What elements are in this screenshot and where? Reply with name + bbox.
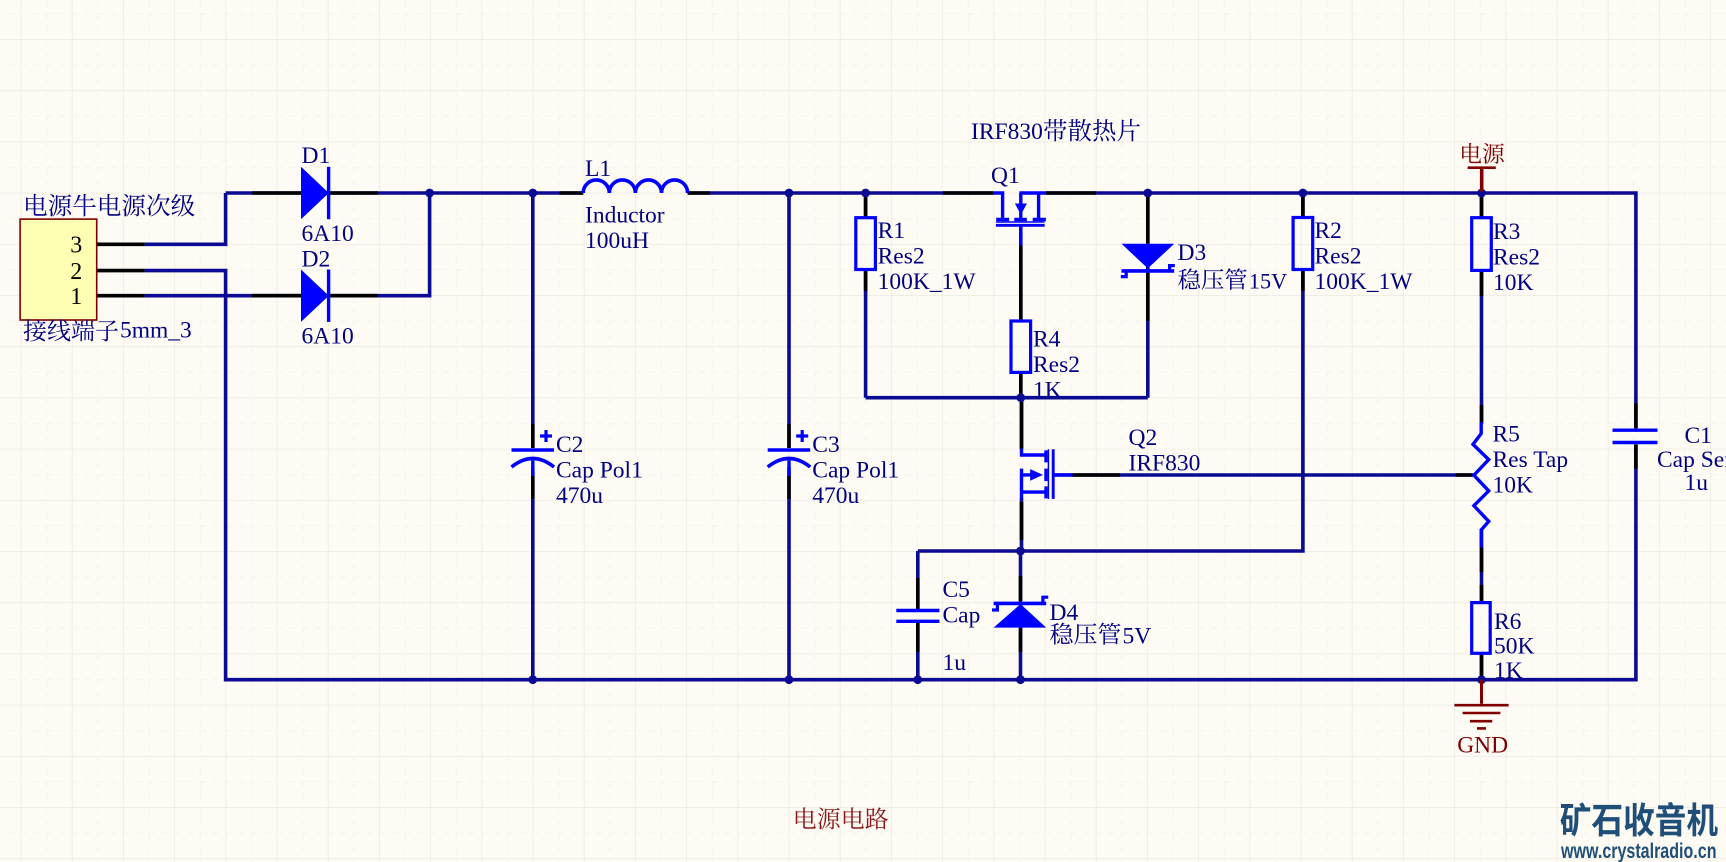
- junction C2 / top bus: [528, 189, 537, 198]
- junction gate node R4/Q2/loop: [1016, 393, 1025, 402]
- svg-text:1K: 1K: [1033, 378, 1062, 404]
- pin stubs D2: [252, 294, 378, 298]
- svg-text:www.crystalradio.cn: www.crystalradio.cn: [1560, 840, 1716, 862]
- svg-text:IRF830: IRF830: [971, 119, 1043, 145]
- wire R1 bottom to gate loop: [864, 270, 868, 398]
- power port 电源 (VCC bar): [1468, 166, 1496, 169]
- svg-text:6A10: 6A10: [302, 324, 354, 350]
- svg-text:100K_1W: 100K_1W: [878, 269, 977, 295]
- label 稳压管5V: [1050, 623, 1072, 645]
- diode D1 6A10: [301, 167, 330, 219]
- svg-text:1u: 1u: [1685, 470, 1709, 496]
- pin stub R4 bottom: [1019, 372, 1023, 397]
- junction Q2 source / C5 / R2 / D4 node: [1016, 547, 1025, 556]
- junction C5 / ground bus: [913, 675, 922, 684]
- svg-text:1u: 1u: [943, 650, 967, 676]
- svg-text:Cap Pol1: Cap Pol1: [556, 458, 643, 484]
- svg-text:Q1: Q1: [991, 163, 1020, 189]
- svg-text:Res2: Res2: [1493, 245, 1540, 271]
- svg-text:Res2: Res2: [1315, 244, 1362, 270]
- resistor R6 50K 1K: [1472, 603, 1491, 654]
- svg-text:Cap Pol1: Cap Pol1: [812, 458, 899, 484]
- svg-text:Res2: Res2: [878, 244, 925, 270]
- watermark 矿石收音机: [1560, 802, 1590, 836]
- junction R1 / top bus: [861, 189, 870, 198]
- wire R2 top stub: [1301, 193, 1305, 218]
- zener diode D4 5V: [992, 597, 1048, 627]
- wire gate node loop R1-R4-D3: [866, 396, 1148, 400]
- pin stubs D3: [1146, 196, 1150, 321]
- svg-text:C3: C3: [812, 432, 839, 458]
- wire C3 branch upper: [787, 193, 791, 448]
- svg-text:1: 1: [70, 284, 82, 310]
- pin stubs R1: [864, 196, 868, 291]
- wire C2 branch upper: [531, 193, 535, 448]
- capacitor C1 Cap Semi 1u: [1613, 430, 1658, 442]
- wire R5 to R6: [1480, 530, 1484, 603]
- svg-text:3: 3: [70, 233, 82, 259]
- pin stubs terminal block pins 3 2 1: [97, 244, 145, 295]
- pin stubs C3: [787, 424, 791, 499]
- svg-text:C5: C5: [943, 577, 970, 603]
- wire top bus left (rectifier to L1): [226, 191, 584, 195]
- svg-text:1K: 1K: [1494, 658, 1523, 684]
- svg-text:15V: 15V: [1249, 269, 1287, 294]
- svg-text:C2: C2: [556, 432, 583, 458]
- connector JP? terminal block 接线端子5mm_3: [20, 219, 97, 320]
- inductor L1 100uH: [583, 180, 687, 193]
- wire Q2 gate to R5 wiper: [1054, 473, 1474, 477]
- svg-text:6A10: 6A10: [302, 221, 354, 247]
- svg-text:R5: R5: [1493, 422, 1520, 448]
- svg-text:470u: 470u: [556, 483, 603, 509]
- label 接线端子5mm_3: [24, 319, 46, 341]
- junction R6 / GND / ground bus: [1477, 675, 1486, 684]
- svg-text:R4: R4: [1033, 327, 1061, 353]
- svg-text:C1: C1: [1685, 423, 1712, 449]
- ground GND symbol: [1454, 680, 1508, 729]
- svg-text:2: 2: [70, 259, 82, 285]
- wire R4 to loop: [1019, 372, 1023, 397]
- potentiometer R5 Res Tap 10K: [1473, 422, 1489, 547]
- wire pin1 to D2 row and riser to top bus: [145, 193, 430, 296]
- svg-text:100uH: 100uH: [585, 228, 649, 254]
- svg-text:10K: 10K: [1493, 473, 1534, 499]
- pin stubs Q1 drain/source/gate: [943, 193, 1096, 321]
- wire R1 top stub: [864, 193, 868, 218]
- wire top bus L1 to Q1 drain: [688, 191, 993, 195]
- junction C2 / ground bus: [528, 675, 537, 684]
- svg-text:5V: 5V: [1123, 624, 1152, 650]
- wire R3 to R5: [1480, 270, 1484, 424]
- junction C3 / top bus: [785, 189, 794, 198]
- zener diode D3 15V: [1121, 244, 1175, 277]
- pin stubs C5: [916, 578, 920, 652]
- svg-text:D2: D2: [302, 247, 331, 273]
- transistor Q1 IRF830 N-MOSFET: [993, 193, 1046, 246]
- wire pin3 to D1 anode corner: [145, 193, 226, 244]
- junction D2 riser / top bus: [425, 189, 434, 198]
- pin stub R6 bottom: [1480, 653, 1484, 679]
- svg-text:D1: D1: [302, 143, 331, 169]
- resistor R3 Res2 10K: [1472, 218, 1492, 271]
- diode D2 6A10: [301, 270, 330, 322]
- pin stubs D1: [252, 191, 378, 195]
- resistor R2 Res2 100K_1W: [1293, 218, 1313, 270]
- wire C2 branch lower: [531, 467, 535, 680]
- wire C5 - node - R2 link: [918, 270, 1303, 552]
- svg-text:5mm_3: 5mm_3: [120, 318, 192, 344]
- svg-text:Res2: Res2: [1033, 352, 1080, 378]
- wire D4 branch: [1019, 551, 1023, 680]
- title 电源电路: [796, 807, 816, 828]
- wire top bus Q1 source to right rail, down right side to C1 top: [1046, 193, 1636, 428]
- wire R6 to ground bus: [1480, 653, 1484, 679]
- label 电源牛电源次级: [26, 194, 47, 216]
- svg-text:L1: L1: [585, 156, 611, 182]
- pin stubs R5: [1456, 405, 1482, 603]
- svg-text:IRF830: IRF830: [1129, 451, 1201, 477]
- svg-text:R6: R6: [1494, 609, 1522, 635]
- pin stubs D4: [1019, 576, 1023, 652]
- junction C3 / ground bus: [785, 675, 794, 684]
- wire ground loop: pin2, left rail, bottom bus, right rail up to C1 bottom: [145, 271, 1636, 680]
- svg-text:10K: 10K: [1493, 270, 1534, 296]
- wire C5 lower: [916, 622, 920, 680]
- label 稳压管15V: [1178, 268, 1200, 289]
- svg-text:Cap: Cap: [943, 603, 981, 629]
- junction D4 / ground bus: [1016, 675, 1025, 684]
- svg-text:470u: 470u: [812, 483, 859, 509]
- junction R2 / output bus: [1299, 189, 1308, 198]
- capacitor C2 Cap Pol1 470u: [512, 430, 555, 476]
- pin stubs L1: [560, 191, 711, 195]
- resistor R1 Res2 100K_1W: [856, 218, 876, 270]
- wire Q2 source down to C5/D4 node: [1020, 498, 1024, 551]
- svg-text:R2: R2: [1315, 218, 1342, 244]
- transistor Q2 IRF830 N-MOSFET: [1022, 449, 1073, 499]
- pin stubs R2: [1301, 196, 1305, 291]
- svg-text:R1: R1: [878, 218, 905, 244]
- svg-text:50K: 50K: [1494, 634, 1535, 660]
- svg-text:Res Tap: Res Tap: [1493, 447, 1569, 473]
- label 电源 power net: [1462, 143, 1481, 163]
- svg-text:Inductor: Inductor: [585, 202, 665, 228]
- capacitor C5 Cap 1u: [896, 611, 939, 622]
- capacitor C3 Cap Pol1 470u: [768, 430, 811, 476]
- pin stubs Q2: [1022, 401, 1121, 540]
- svg-text:GND: GND: [1457, 732, 1508, 758]
- pin stubs C1: [1634, 403, 1638, 469]
- wire loop to Q2 drain: [1020, 398, 1024, 449]
- resistor R4 Res2 1K: [1011, 321, 1031, 372]
- pin stubs R3: [1480, 196, 1484, 296]
- svg-text:100K_1W: 100K_1W: [1315, 269, 1414, 295]
- svg-text:R3: R3: [1493, 219, 1520, 245]
- wire D3 branch: [1146, 193, 1150, 398]
- wire Q1 gate to R4: [1019, 226, 1023, 321]
- wire R3 top stub: [1480, 193, 1484, 218]
- junction D3 / output bus: [1143, 189, 1152, 198]
- pin stubs C2: [531, 424, 535, 499]
- svg-text:Q2: Q2: [1129, 425, 1158, 451]
- wire C5 upper: [916, 551, 920, 609]
- wire C3 branch lower: [787, 467, 791, 680]
- svg-text:D4: D4: [1050, 600, 1079, 626]
- junction R3 power node: [1477, 189, 1486, 198]
- svg-text:D3: D3: [1178, 240, 1207, 266]
